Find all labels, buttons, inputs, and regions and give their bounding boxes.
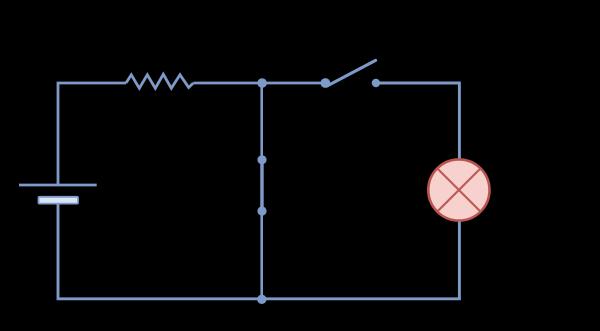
switch S1 lever bbox=[327, 60, 376, 86]
node: bottom junction dot bbox=[257, 295, 266, 304]
switch S1 left contact dot bbox=[321, 78, 331, 88]
battery B1 positive plate (long line) bbox=[19, 184, 97, 187]
wire: left branch top corner (battery to resistor) bbox=[58, 83, 126, 185]
wire: lamp bottom to bottom-right corner, bottom wire, up to battery bbox=[58, 203, 459, 299]
resistor R1 (zigzag) bbox=[126, 74, 193, 88]
node: middle branch upper terminal dot bbox=[257, 155, 266, 164]
node: middle branch lower terminal dot bbox=[257, 206, 266, 215]
battery B1 negative plate (short thick bar) bbox=[39, 197, 79, 204]
wire: middle branch thicker segment between terminals bbox=[260, 160, 263, 211]
wire: resistor to switch left contact bbox=[193, 82, 322, 85]
switch S1 right contact dot bbox=[372, 79, 380, 87]
wire: middle branch vertical bbox=[260, 83, 263, 299]
node: top junction dot bbox=[257, 78, 267, 88]
lamp L1 (circle with X) bbox=[428, 159, 489, 220]
wire: switch right contact to top-right corner, down to lamp bbox=[378, 83, 459, 160]
